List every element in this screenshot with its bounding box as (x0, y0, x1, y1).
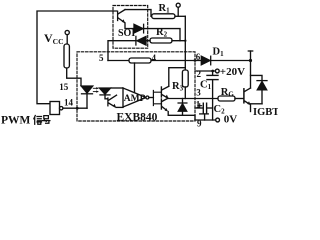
resistor (internal, pin4) (129, 58, 151, 63)
wire (output node, pin 3) (168, 98, 218, 100)
wire (SOI transistor base to PWM source loop) (37, 11, 117, 104)
EXB840 dashed box (77, 52, 195, 121)
wire (pin 1) (195, 107, 203, 109)
wire (0V rail) + terminal 0V (195, 118, 220, 122)
diode (SOI upper) (134, 24, 180, 40)
wire (pin 14) (63, 107, 87, 109)
svg-text:5: 5 (99, 53, 104, 63)
transistor (totem upper NPN) (161, 86, 168, 98)
svg-text:EXB840: EXB840 (117, 112, 158, 124)
svg-text:14: 14 (64, 98, 74, 108)
diode (SOI lower, LED) (108, 36, 146, 60)
diode D1 (desat sense) (201, 56, 250, 65)
svg-text:IGBT: IGBT (253, 107, 278, 118)
label (hanzi xin) (34, 116, 42, 125)
wire (to AMP) (134, 63, 136, 93)
terminal Vcc (65, 30, 69, 44)
resistor R1 (152, 14, 186, 19)
zener diode (gate clamp) (178, 99, 187, 116)
op-amp AMP (123, 88, 153, 107)
junction (pin 6 exit) (194, 59, 197, 62)
junction (pin 14 entry) (76, 107, 79, 110)
svg-text:6: 6 (196, 52, 201, 62)
resistor R3 (182, 70, 188, 99)
IGBT Q1 (244, 51, 253, 112)
junction (collector sense) (249, 59, 252, 62)
wire (internal 0V) (168, 112, 195, 121)
resistor R2 (146, 38, 185, 43)
optocoupler light arrows (93, 87, 99, 93)
terminal (fault signal output) (176, 3, 180, 16)
resistor (Vcc input pull-up) (64, 44, 69, 68)
label (hanzi hao) (42, 116, 50, 124)
SOI dashed box (113, 6, 148, 49)
svg-text:AMP: AMP (124, 94, 146, 104)
phototransistor (SOI output) (118, 10, 151, 29)
svg-text:0V: 0V (224, 113, 238, 125)
capacitor C2 (200, 103, 213, 120)
LED (EXB840 input, pins 15-14) (81, 86, 92, 108)
wire (pin 2) + terminal +20V (195, 69, 219, 73)
svg-text:PWM: PWM (1, 115, 31, 127)
wire (pin 15 input) (67, 68, 81, 86)
photodiode (EXB840 input coupler) (100, 88, 124, 99)
PWM source box (50, 102, 63, 115)
junction (184, 40, 186, 42)
svg-text:+20V: +20V (220, 66, 245, 78)
capacitor C1 (207, 71, 218, 120)
wire (totem pole base tie) (153, 91, 161, 106)
diode (freewheel, IGBT) (251, 75, 268, 103)
phototransistor (to AMP) (108, 95, 123, 107)
wire (pull-up rail) (184, 16, 186, 70)
svg-text:SOI: SOI (118, 28, 135, 39)
wire (pins 5-4-6 internal) (108, 60, 201, 62)
resistor RG (218, 96, 243, 101)
svg-text:4: 4 (152, 53, 157, 63)
label + (C2 polarity) (198, 104, 202, 108)
junction (C1 tap) (211, 70, 214, 73)
svg-text:15: 15 (59, 82, 69, 92)
wire (upper collector to rail) (169, 68, 186, 87)
transistor (totem lower PNP) (161, 98, 168, 111)
